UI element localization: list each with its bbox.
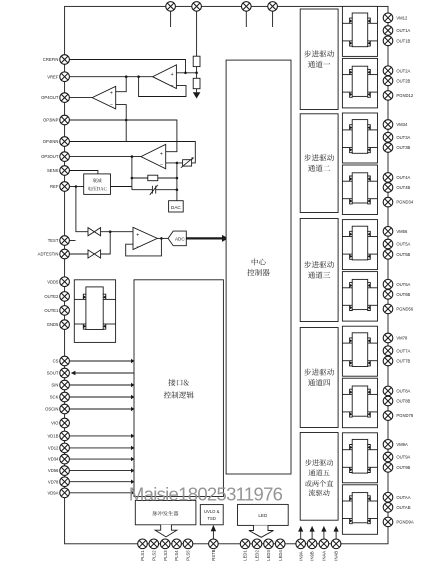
pad OUT4A: [383, 173, 393, 183]
svg-text:PGND12: PGND12: [396, 93, 413, 98]
pad VM12: [383, 13, 393, 23]
wire TEST stub: [70, 240, 76, 242]
resistor R3 (feedback): [148, 175, 158, 181]
svg-text:CREFIN: CREFIN: [43, 57, 59, 62]
wire row1 left: [132, 177, 148, 179]
pad CS: [60, 356, 70, 366]
svg-text:UVLO &: UVLO &: [204, 509, 220, 514]
wire CS input: [70, 360, 132, 362]
pad SENS: [60, 166, 70, 176]
pad LED2: [252, 539, 262, 549]
wire VD34 input: [70, 458, 132, 460]
analog switch SW2: [88, 250, 94, 258]
svg-text:RSTB: RSTB: [211, 549, 216, 560]
wire CREFIN net: [70, 60, 186, 73]
pad RSTB: [209, 539, 219, 549]
wire U2 - to OP4INN column: [116, 105, 127, 142]
pad OP3INP: [60, 115, 70, 125]
pad TEST: [60, 236, 70, 246]
svg-text:OUT9B: OUT9B: [396, 465, 410, 470]
svg-text:VM9A: VM9A: [396, 442, 408, 447]
svg-text:LED4: LED4: [278, 550, 283, 561]
label channel 5 line2: [309, 469, 330, 476]
label channel 1 line1: [304, 50, 334, 57]
label channel 2 line2: [308, 165, 330, 172]
label attenuation DAC line1: [93, 178, 102, 182]
op-amp U1 (VREF buffer): [153, 65, 177, 89]
svg-text:IN9A: IN9A: [298, 551, 303, 561]
block UVLO TSD: [200, 505, 223, 525]
wire SW1 to comparator: [101, 231, 133, 233]
svg-text:OUT3A: OUT3A: [396, 135, 410, 140]
wire row1 right: [158, 177, 177, 179]
wire DAC block to feedback column: [111, 186, 132, 188]
svg-text:OP4OUT: OP4OUT: [41, 95, 59, 100]
svg-text:OUT2B: OUT2B: [396, 78, 410, 83]
wire U1 feedback loop: [139, 77, 186, 97]
pad CREFIN: [60, 55, 70, 65]
block central controller: [226, 60, 291, 474]
svg-text:VDD5: VDD5: [47, 279, 59, 284]
wire VD12 input: [70, 447, 132, 449]
pad LED1: [240, 539, 250, 549]
junction divider tap: [195, 72, 198, 75]
svg-text:+: +: [160, 151, 163, 157]
pad PGND9A: [383, 517, 393, 527]
wire VD78 input: [70, 481, 132, 483]
bus arrow ADC to central controller: [186, 237, 222, 239]
label channel 4 line1: [304, 369, 334, 376]
wire SENS net: [70, 171, 98, 174]
svg-text:−: −: [160, 163, 163, 169]
junction U3 - node: [176, 162, 179, 165]
svg-text:VIO: VIO: [51, 421, 59, 426]
half-bridge box 9: [342, 433, 377, 483]
wire VD1B input: [70, 435, 132, 437]
half-bridge box 8: [342, 378, 377, 428]
label channel 4 line2: [308, 379, 330, 386]
svg-text:TEST: TEST: [48, 238, 59, 243]
svg-text:VD56: VD56: [48, 468, 59, 473]
svg-text:TSD: TSD: [208, 516, 216, 521]
pad VD56: [60, 466, 70, 476]
junction REF branch: [75, 185, 78, 188]
pad VM56: [383, 227, 393, 237]
wire VREF net: [70, 76, 153, 78]
pad VD1B: [60, 431, 70, 441]
svg-text:SIN: SIN: [51, 383, 58, 388]
op-amp U3 (OP3): [141, 144, 166, 168]
svg-text:ADTESTIN: ADTESTIN: [38, 252, 59, 257]
top pad P2: [192, 2, 202, 12]
svg-text:OUT9A: OUT9A: [396, 455, 410, 460]
svg-text:OUTAA: OUTAA: [396, 495, 410, 500]
wire divider to ground: [196, 89, 198, 93]
svg-text:−: −: [136, 244, 139, 250]
wire U1 + input to divider tap: [176, 72, 196, 74]
svg-text:−: −: [110, 103, 113, 109]
svg-text:VD1B: VD1B: [47, 434, 58, 439]
svg-text:PGND56: PGND56: [396, 307, 413, 312]
ground symbol: [193, 92, 201, 98]
capacitor C1 (trimmer): [151, 186, 153, 194]
pad OUT8A: [383, 386, 393, 396]
svg-text:LED3: LED3: [266, 550, 271, 561]
block interface and control logic: [134, 280, 223, 497]
svg-text:LED2: LED2: [255, 550, 260, 561]
svg-text:+: +: [136, 232, 139, 238]
junction VREF feedback: [137, 75, 140, 78]
svg-text:OP4INN: OP4INN: [43, 139, 59, 144]
wire U2 + to VREF: [116, 77, 127, 92]
svg-text:+: +: [171, 72, 174, 78]
label channel 5 line1: [305, 459, 333, 466]
wire INAB arrow to channel5: [335, 531, 337, 539]
svg-text:PLS2: PLS2: [151, 550, 156, 561]
svg-text:OSCIN: OSCIN: [45, 407, 58, 412]
block ADC: [168, 231, 186, 246]
svg-text:OUT2A: OUT2A: [396, 68, 410, 73]
wire IN9A arrow to channel5: [300, 531, 302, 539]
top pad P3: [242, 2, 252, 12]
wire OP3INP net: [70, 120, 177, 152]
pad VD78: [60, 477, 70, 487]
op-amp U2 (OP4): [92, 86, 116, 109]
pad OUT5A: [383, 239, 393, 249]
svg-text:PLS5: PLS5: [186, 550, 191, 561]
pad VD34: [60, 454, 70, 464]
label attenuation DAC line2: [88, 187, 106, 191]
pad ADTESTIN: [60, 249, 70, 259]
svg-text:OUT4B: OUT4B: [396, 185, 410, 190]
pad IN9A: [296, 539, 306, 549]
wire ADTESTIN net: [70, 253, 88, 255]
pad OUT3A: [383, 132, 393, 142]
block stepper channel 2: [300, 114, 338, 213]
half-bridge box 7: [342, 326, 377, 376]
svg-text:OUTE2: OUTE2: [44, 294, 59, 299]
pad OUTE1: [60, 306, 70, 316]
resistor R2 (lower divider): [193, 78, 200, 88]
junction row2 right: [176, 188, 179, 191]
wire SCK input: [70, 396, 132, 398]
pad PLS1: [138, 539, 148, 549]
wire IN9B arrow to channel5: [311, 531, 313, 539]
pad OUT9B: [383, 463, 393, 473]
pad VM9A: [383, 440, 393, 450]
pad OUTE2: [60, 292, 70, 302]
block attenuation voltage DAC: [84, 174, 111, 195]
junction on OP3INP line: [125, 119, 128, 122]
svg-text:OUT5A: OUT5A: [396, 242, 410, 247]
svg-text:INAB: INAB: [334, 551, 339, 561]
svg-text:CS: CS: [53, 359, 59, 364]
pad PGND56: [383, 304, 393, 314]
pad OP3OUT: [60, 152, 70, 162]
wire INAA arrow to channel5: [323, 531, 325, 539]
svg-text:VM56: VM56: [396, 229, 408, 234]
svg-text:VD78: VD78: [48, 479, 59, 484]
pad PLS3: [160, 539, 170, 549]
svg-text:OUT6A: OUT6A: [396, 282, 410, 287]
svg-text:Maisie18025311976: Maisie18025311976: [129, 483, 283, 504]
svg-text:OUT3B: OUT3B: [396, 145, 410, 150]
pad PLS5: [183, 539, 193, 549]
half-bridge box 5: [342, 220, 377, 270]
svg-text:PGND34: PGND34: [396, 200, 413, 205]
junction on op-amp U1 + input: [184, 72, 187, 75]
op-amp U4 (comparator): [133, 227, 157, 249]
wire divider middle: [196, 67, 198, 79]
svg-text:GND5: GND5: [47, 322, 59, 327]
pad OUT4B: [383, 183, 393, 193]
svg-text:OUT8A: OUT8A: [396, 389, 410, 394]
label central controller line2: [247, 269, 269, 276]
top pad P4: [268, 2, 278, 12]
half-bridge box 1: [342, 6, 377, 56]
wire row2 left: [132, 189, 153, 191]
pad PLS4: [172, 539, 182, 549]
label channel 2 line1: [304, 154, 334, 161]
half-bridge box 2: [342, 58, 377, 108]
pad VM78: [383, 333, 393, 343]
pad IN9B: [307, 539, 317, 549]
svg-text:LED: LED: [258, 513, 268, 518]
pad SIN: [60, 380, 70, 390]
wire OSCIN input: [70, 408, 132, 410]
svg-text:VM34: VM34: [396, 122, 408, 127]
block stepper channel 4: [300, 328, 338, 428]
pad OUT3B: [383, 143, 393, 153]
label central controller line1: [252, 258, 266, 265]
wire stub from top pad P4: [272, 11, 274, 27]
svg-text:OUT8B: OUT8B: [396, 399, 410, 404]
svg-text:IN9B: IN9B: [310, 551, 315, 561]
top pad P1: [166, 2, 176, 12]
svg-text:OUTE1: OUTE1: [44, 308, 59, 313]
wire VD56 input: [70, 470, 132, 472]
svg-text:OUT4A: OUT4A: [396, 175, 410, 180]
pad PLS2: [149, 539, 159, 549]
wire RSTB arrow to UVLO: [212, 531, 214, 539]
junction right column row1: [176, 177, 179, 180]
wire REF to switch SW1: [76, 187, 88, 232]
wire OP3OUT net: [70, 156, 141, 158]
svg-text:VD34: VD34: [48, 457, 59, 462]
wire feedback column left: [131, 157, 133, 190]
label pulse generator: [153, 511, 179, 516]
svg-text:DAC: DAC: [171, 205, 181, 210]
junction OP3OUT feedback: [131, 155, 134, 158]
wire stub from top pad P2: [196, 11, 198, 56]
svg-text:OUT6B: OUT6B: [396, 292, 410, 297]
svg-text:VM12: VM12: [396, 15, 408, 20]
svg-text:VD12: VD12: [48, 446, 59, 451]
svg-text:OUT7A: OUT7A: [396, 348, 410, 353]
svg-text:VREF: VREF: [47, 74, 59, 79]
pad VDD5: [60, 277, 70, 287]
hollow arrow LED to pads: [249, 525, 274, 537]
wire U4 feedback: [126, 238, 162, 256]
pad OP4INN: [60, 137, 70, 147]
wire REF net: [70, 186, 84, 188]
pad OUT1B: [383, 36, 393, 46]
svg-text:PLS1: PLS1: [140, 550, 145, 561]
pad OUTAA: [383, 492, 393, 502]
half-bridge box 4: [342, 165, 377, 215]
pad VIO: [60, 418, 70, 428]
svg-text:OUTAB: OUTAB: [396, 505, 410, 510]
svg-text:OUT5B: OUT5B: [396, 252, 410, 257]
pad OUT6B: [383, 290, 393, 300]
pad LED3: [264, 539, 274, 549]
svg-text:VM78: VM78: [396, 336, 408, 341]
svg-text:PGND78: PGND78: [396, 413, 413, 418]
wire VD9A input: [70, 492, 132, 494]
pad VD9A: [60, 488, 70, 498]
pad OUT7A: [383, 346, 393, 356]
pad VD12: [60, 443, 70, 453]
pad PGND12: [383, 91, 393, 101]
pad GND5: [60, 320, 70, 330]
label channel 3 line2: [308, 272, 330, 279]
block LED driver: [238, 504, 289, 525]
wire stub from top pad P1: [170, 11, 172, 27]
half-bridge box 10: [342, 485, 377, 535]
svg-text:VD9A: VD9A: [47, 490, 58, 495]
pad OUT2B: [383, 76, 393, 86]
half-bridge box 6: [342, 272, 377, 322]
hollow arrow pulse generator to PLS pads: [155, 525, 177, 537]
svg-text:OUT7B: OUT7B: [396, 359, 410, 364]
wire SW2 to + node: [101, 232, 111, 254]
wire SOUT output: [75, 372, 134, 374]
svg-text:SENS: SENS: [47, 168, 59, 173]
block stepper channel 5: [300, 433, 338, 521]
svg-text:SOUT: SOUT: [47, 371, 59, 376]
wire SIN input: [70, 384, 132, 386]
svg-text:OP3INP: OP3INP: [43, 118, 59, 123]
svg-text:PGND9A: PGND9A: [396, 520, 413, 525]
half-bridge box 3: [342, 113, 377, 163]
block pulse generator: [135, 501, 196, 525]
wire U4 output: [157, 237, 168, 239]
pad OUT8B: [383, 396, 393, 406]
pad OUT7B: [383, 356, 393, 366]
pad OUT1A: [383, 26, 393, 36]
pad SOUT: [60, 368, 70, 378]
chip outer border: [65, 6, 388, 543]
junction U2+ on VREF line: [125, 75, 128, 78]
svg-text:ADC: ADC: [175, 237, 185, 242]
pad OUT5B: [383, 250, 393, 260]
pad INAA: [319, 539, 329, 549]
pad OUTAB: [383, 503, 393, 513]
wire feedback column right: [176, 163, 178, 201]
block DAC: [169, 201, 184, 212]
svg-text:OUT1B: OUT1B: [396, 38, 410, 43]
svg-text:OP3OUT: OP3OUT: [41, 154, 59, 159]
svg-text:LED1: LED1: [243, 550, 248, 561]
label channel 5 line4: [309, 489, 330, 496]
pad OSCIN: [60, 404, 70, 414]
pad LED4: [275, 539, 285, 549]
potentiometer RV1: [183, 160, 192, 166]
wire row2 right: [156, 189, 177, 191]
resistor R1 (upper divider): [193, 56, 200, 66]
wire stub from top pad P3: [245, 11, 247, 27]
svg-text:OUT1A: OUT1A: [396, 28, 410, 33]
block 5V driver box: [74, 280, 115, 343]
block stepper channel 3: [300, 219, 338, 322]
wire OP4INN net: [70, 142, 196, 163]
pad VREF: [60, 72, 70, 82]
svg-text:SCK: SCK: [50, 395, 59, 400]
analog switch SW1: [88, 228, 94, 236]
pad PGND34: [383, 197, 393, 207]
label interface line2: [164, 391, 194, 398]
label interface line1: [168, 379, 189, 386]
pad OUT2A: [383, 66, 393, 76]
svg-text:REF: REF: [50, 184, 59, 189]
pad OP4OUT: [60, 93, 70, 103]
wire U3 - input: [166, 162, 183, 164]
svg-text:+: +: [110, 91, 113, 97]
pad INAB: [331, 539, 341, 549]
pad REF: [60, 182, 70, 192]
junction comparator + node: [109, 230, 112, 233]
pad OUT6A: [383, 279, 393, 289]
wire OP4OUT net: [70, 97, 93, 99]
label channel 3 line1: [304, 261, 334, 268]
svg-text:INAA: INAA: [322, 551, 327, 561]
svg-text:−: −: [171, 83, 174, 89]
junction U4 output: [160, 237, 163, 240]
pad OUT9A: [383, 452, 393, 462]
block stepper channel 1: [300, 9, 338, 110]
pad VM34: [383, 120, 393, 130]
pad PGND78: [383, 411, 393, 421]
svg-text:PLS4: PLS4: [174, 550, 179, 561]
pad SCK: [60, 392, 70, 402]
label channel 1 line2: [308, 61, 330, 68]
svg-text:PLS3: PLS3: [163, 550, 168, 561]
label channel 5 line3: [305, 480, 333, 487]
junction left column row1: [131, 177, 134, 180]
